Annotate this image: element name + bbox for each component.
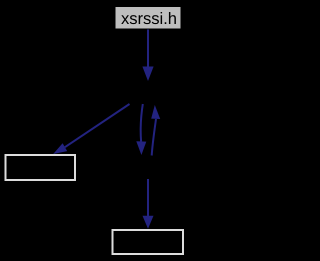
bottom right box (empty node, light border): [113, 230, 184, 254]
edge xsrssi.h -> node M (vertical arrow): [142, 30, 153, 82]
node xsrssi.h (main node, gray): [115, 7, 181, 30]
edge node N -> bottom right box (vertical arrow): [143, 179, 154, 229]
edge node M -> node N (down curve of pair): [136, 104, 146, 155]
edge node N -> node M (up curve of pair): [151, 105, 160, 156]
edge node M -> left box (diagonal arrow): [53, 104, 129, 154]
left box (empty node, light border): [6, 155, 76, 180]
